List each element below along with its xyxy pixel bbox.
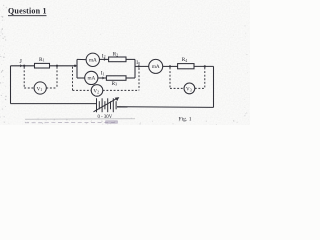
- ammeter mA1: [85, 71, 98, 84]
- wire top main left: [11, 65, 35, 67]
- junction dot D: [138, 65, 140, 67]
- resistor R3: [106, 76, 126, 81]
- artifact faint line bottom: [25, 118, 135, 120]
- artifact purple blob: [105, 120, 118, 123]
- label R4: [182, 57, 188, 63]
- junction dot E: [169, 65, 171, 67]
- voltmeter V1 dashed tap left: [24, 67, 57, 88]
- label J: [20, 59, 23, 65]
- label 0-30V: [98, 115, 113, 120]
- voltmeter V1: [34, 82, 46, 94]
- wire top branch lead: [77, 58, 86, 60]
- wire join vertical: [134, 59, 136, 78]
- arrow on wire at J: [20, 64, 23, 67]
- resistor R4: [178, 64, 194, 69]
- junction dot B: [56, 65, 58, 67]
- title underline: [8, 15, 47, 17]
- ammeter mA2: [86, 53, 99, 66]
- arrow I1: [102, 77, 104, 80]
- title Question 1: [8, 6, 47, 15]
- junction dot A: [23, 65, 25, 67]
- wire top branch mid: [100, 58, 109, 60]
- voltmeter V2 dashed tap: [73, 67, 140, 91]
- artifact dashed purple line: [25, 121, 116, 123]
- wire right vertical: [213, 66, 215, 107]
- wire to R4: [163, 65, 178, 67]
- caption Fig. 1: [179, 117, 192, 123]
- wire after R1: [50, 65, 78, 67]
- voltmeter V3: [184, 83, 195, 94]
- current label I0: [136, 60, 140, 66]
- voltmeter V2: [91, 85, 103, 97]
- wire top branch right: [126, 58, 135, 60]
- junction dot F: [204, 65, 206, 67]
- wire bottom right: [117, 106, 214, 109]
- battery variable arrow: [94, 98, 118, 112]
- wire bottom branch right: [126, 77, 135, 79]
- arrow I2: [104, 58, 106, 61]
- voltmeter V3 dashed tap: [170, 68, 205, 89]
- wire left vertical: [10, 66, 12, 104]
- wire bottom left: [11, 103, 97, 105]
- label R3: [112, 81, 118, 87]
- label R1: [39, 57, 45, 63]
- junction dot C: [74, 65, 76, 67]
- wire mid right: [135, 65, 149, 67]
- wire bottom branch lead: [77, 77, 85, 79]
- wire after R4: [194, 65, 214, 67]
- scan noise specks: [0, 5, 249, 125]
- wire bottom branch mid: [98, 77, 107, 79]
- label R2: [113, 51, 119, 57]
- ammeter mA3: [149, 59, 163, 73]
- resistor R2: [109, 57, 126, 62]
- resistor R1: [35, 63, 50, 68]
- wire split vertical: [76, 59, 78, 78]
- current label I2: [102, 53, 106, 59]
- battery cells: [97, 98, 117, 112]
- page grain overlay: [0, 0, 250, 125]
- current label I1: [101, 71, 105, 77]
